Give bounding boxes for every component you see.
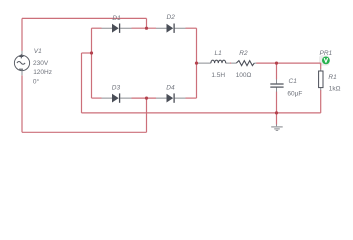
C1 leads [276,79,278,91]
svg-text:D4: D4 [166,84,175,91]
svg-text:D2: D2 [167,14,176,21]
wire V1 top to D1-D2 node [22,17,147,19]
V1 lead bottom [21,71,23,76]
wire C1 bottom [276,92,278,113]
junction node C1 bottom / ground [275,111,278,114]
junction node D3-D4 [145,97,148,100]
source V1 [14,54,29,70]
wire top row segment right [186,27,197,29]
svg-text:V1: V1 [34,48,42,55]
diode D1 [112,24,120,33]
wire bottom row segment right [186,97,197,99]
svg-text:120Hz: 120Hz [33,69,52,76]
D2 leads [156,27,186,29]
resistor R2 [236,61,254,66]
svg-text:60µF: 60µF [287,91,302,98]
D1 leads [102,27,132,29]
wire speck between L1 and R2 [230,62,232,64]
ground symbol bars [271,127,283,130]
svg-text:1kΩ: 1kΩ [329,86,341,93]
wire stub at node B [82,52,92,54]
ground lead [276,124,278,126]
wire bottom row segment mid [132,97,157,99]
junction node D1-D2 [145,27,148,30]
svg-text:1.5H: 1.5H [211,72,225,79]
probe PR1 indicator [322,57,330,65]
wire left cathode bus [91,28,93,98]
wire R1 top [320,63,322,69]
resistor R1 [319,71,323,88]
wire bottom mid bus [82,112,321,114]
svg-text:D1: D1 [112,15,121,22]
svg-text:D3: D3 [112,84,121,91]
junction node C1 top [275,62,278,65]
L1 leads [198,62,230,64]
svg-text:100Ω: 100Ω [236,72,252,79]
inductor L1 [211,60,226,63]
wire output row red [256,62,321,64]
svg-text:R1: R1 [328,74,337,81]
D4 leads [156,97,186,99]
wire top row segment left [92,27,102,29]
diode D3 [112,93,120,102]
wire bottom row segment left [92,97,102,99]
svg-text:C1: C1 [289,78,298,85]
probe PR1 background pad [319,55,329,65]
wire V1 bottom lead [21,75,23,132]
svg-text:R2: R2 [239,50,248,57]
wire bottom return [22,131,147,133]
wire C1 top [276,63,278,79]
diode D4 [167,93,175,102]
svg-text:PR1: PR1 [320,50,333,57]
D3 leads [102,97,132,99]
wire R1 bottom [320,90,322,113]
R2 leads [231,62,256,64]
wire ground stem [276,113,278,125]
capacitor C1 [270,84,283,87]
wire D3-D4 node down [146,98,148,132]
wire V1 top lead [21,18,23,51]
svg-text:230V: 230V [33,60,49,67]
svg-text:0°: 0° [33,78,40,86]
junction node B [90,51,93,54]
diode D2 [167,24,175,33]
wire right rectifier bus [196,28,198,98]
wire top row segment mid [132,27,157,29]
junction node L1 input [195,62,198,65]
R1 leads [320,69,322,90]
wire node down to top diode row [146,18,148,28]
wire left bus down [81,53,83,113]
V1 lead top [21,51,23,56]
svg-text:L1: L1 [215,50,223,57]
